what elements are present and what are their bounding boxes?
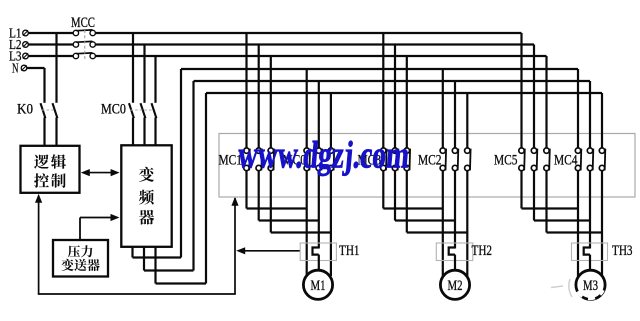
- wire INV drop to pole 2: [318, 81, 320, 148]
- svg-text:MC5: MC5: [494, 153, 518, 169]
- wire L1 drop to MC0: [132, 33, 134, 103]
- svg-text:TH3: TH3: [612, 243, 633, 259]
- wire MC4 pole 3 to TH3: [601, 171, 603, 276]
- wire inverter out U: [131, 247, 133, 258]
- wire MC1 pole 2 to M1 junction: [258, 171, 260, 221]
- wire L3 bus: [28, 55, 73, 57]
- wire MC6 pole 3 to TH1: [330, 171, 332, 276]
- wire MC5 pole 3 to M3 junction: [545, 171, 547, 233]
- wire MC6 pole 1 to TH1: [306, 171, 308, 276]
- thermal relay TH3: [572, 243, 608, 261]
- wire inverter out V: [143, 247, 145, 271]
- wire mains drop to MC1 pole 2: [258, 45, 260, 149]
- svg-text:N: N: [12, 61, 19, 76]
- contactor MC2 pole 2: [452, 148, 457, 153]
- wire L2 drop to MC0: [143, 45, 145, 103]
- wire INV elbow to MC4 pole 3: [601, 93, 603, 148]
- contactor MC0 pole 3: [152, 103, 157, 118]
- wire INV bus W: [206, 92, 602, 94]
- wire TH1 heater to M1: [318, 255, 320, 271]
- wire PT to inverter: [79, 218, 81, 240]
- wire K0 to logic box: [43, 118, 45, 147]
- wire MC6 pole 2 to TH1 heater: [318, 171, 320, 249]
- wire feedback left riser: [38, 197, 40, 295]
- contactor MC1 pole 2: [256, 148, 261, 153]
- wire INV bus V: [194, 80, 591, 82]
- svg-text:TH1: TH1: [339, 243, 360, 259]
- contactor MC4 pole 2: [587, 148, 592, 153]
- wire INV elbow to MC4 pole 1: [577, 69, 579, 148]
- contactor MC1 pole 1: [244, 148, 249, 153]
- thermal relay TH1: [300, 243, 336, 261]
- wire MC1 pole 3 to M1 junction: [270, 171, 272, 233]
- contactor MCC pole 1: [73, 30, 78, 35]
- motor M3: [576, 270, 605, 299]
- thermal relay TH2: [436, 243, 473, 261]
- switch K0 linkage: [42, 109, 54, 111]
- contactor MC3 pole 2: [392, 148, 397, 153]
- switch K0 pole 2: [53, 103, 58, 118]
- svg-text:MC2: MC2: [418, 153, 442, 169]
- wire INV drop to MC2 pole 3: [466, 93, 468, 148]
- svg-text:MC4: MC4: [554, 153, 578, 169]
- wire mains drop to MC1 pole 1: [245, 33, 247, 148]
- contactor MC3 pole 1: [381, 148, 386, 153]
- wire MC4 pole 2 to TH3 heater: [589, 171, 591, 249]
- wire MC2 pole 1 to TH2: [442, 171, 444, 276]
- wire MC3 pole 1 to M2 junction: [382, 171, 384, 209]
- wire L2 bus: [28, 43, 73, 45]
- wire INV drop to pole 3: [330, 93, 332, 148]
- wire MC5 pole 1 to M3 junction: [520, 171, 522, 209]
- wire MC0 to inverter: [132, 118, 134, 146]
- wire INV bus U: [181, 68, 578, 70]
- wire MC2 pole 2 to TH2 heater: [454, 171, 456, 249]
- enclosure contactor group box: [219, 134, 635, 198]
- svg-text:www.dgzj.com: www.dgzj.com: [236, 135, 411, 177]
- wire MC3 pole 2 to M2 junction: [394, 171, 396, 221]
- wire MC5 pole 2 to M3 junction: [533, 171, 535, 221]
- contactor MC6 pole 1: [304, 148, 309, 153]
- wire mains drop to MC3 pole 3: [406, 56, 408, 148]
- arrow logic-inverter: [88, 172, 112, 174]
- contactor MC0 pole 1: [129, 103, 134, 118]
- contactor MCC linkage: [84, 30, 86, 59]
- contactor MC0 linkage: [131, 109, 154, 111]
- wire inverter out W: [154, 247, 156, 284]
- watermark www.dgzj.com: [236, 135, 411, 177]
- svg-text:MCC: MCC: [71, 15, 95, 31]
- contactor MC4 pole 1: [575, 148, 580, 153]
- wire feedback right riser: [234, 198, 236, 294]
- svg-text:M2: M2: [448, 278, 463, 294]
- svg-text:TH2: TH2: [472, 243, 493, 259]
- contactor MC3 pole 3: [404, 148, 409, 153]
- block logic-controller 逻辑控制: [21, 146, 80, 193]
- wire INV drop to MC2 pole 1: [442, 69, 444, 148]
- wire MC4 pole 1 to TH3: [577, 171, 579, 276]
- contactor MC6 pole 2: [316, 148, 321, 153]
- wire mains drop to MC3 pole 1: [382, 33, 384, 148]
- contactor MCC pole 3: [73, 53, 78, 58]
- svg-text:MC0: MC0: [101, 102, 126, 118]
- switch K0 pole 1: [41, 103, 46, 118]
- wire mains elbow to MC5 pole 1: [520, 33, 522, 148]
- stamp watermark fragment: [569, 279, 572, 297]
- wire mains elbow to MC5 pole 2: [533, 45, 535, 149]
- contactor MC6 pole 3: [328, 148, 333, 153]
- wire TH3 heater to M3: [589, 255, 591, 271]
- svg-text:K0: K0: [17, 101, 33, 117]
- wire mains drop to MC1 pole 3: [270, 56, 272, 148]
- svg-text:M3: M3: [583, 278, 598, 294]
- wire INV elbow to MC4 pole 2: [589, 81, 591, 148]
- wire TH2 heater to M2: [454, 255, 456, 271]
- wire N drop to K0: [43, 68, 45, 103]
- contactor MC5 pole 3: [544, 148, 549, 153]
- wire feedback bottom: [38, 293, 236, 295]
- block inverter 变频器: [121, 145, 171, 247]
- wire L1 bus: [28, 32, 73, 34]
- contactor MC2 pole 3: [465, 148, 470, 153]
- contactor MCC pole 2: [73, 42, 78, 47]
- contactor MC4 pole 3: [599, 148, 604, 153]
- wire mains elbow to MC5 pole 3: [545, 56, 547, 148]
- contactor MC2 pole 1: [440, 148, 445, 153]
- contactor MC0 pole 2: [141, 103, 146, 118]
- contactor MC5 pole 1: [519, 148, 524, 153]
- wire MC2 pole 3 to TH2: [466, 171, 468, 276]
- svg-text:M1: M1: [311, 278, 326, 294]
- motor M2: [440, 270, 469, 299]
- contactor MC5 pole 2: [531, 148, 536, 153]
- wire mains drop to MC3 pole 2: [394, 45, 396, 149]
- wire TH1 to feedback: [243, 250, 300, 252]
- wire MC3 pole 3 to M2 junction: [406, 171, 408, 233]
- wire L3 drop to MC0: [154, 56, 156, 103]
- wire MC1 pole 1 to M1 junction: [245, 171, 247, 209]
- wire N: [27, 67, 45, 69]
- wire INV drop to MC2 pole 2: [454, 81, 456, 148]
- wire L1 tap to K0: [55, 33, 57, 103]
- wire INV drop to pole 1: [306, 69, 308, 148]
- contactor MC1 pole 3: [268, 148, 273, 153]
- motor M1: [303, 270, 332, 299]
- block pressure-transmitter 压力变送器: [53, 240, 108, 277]
